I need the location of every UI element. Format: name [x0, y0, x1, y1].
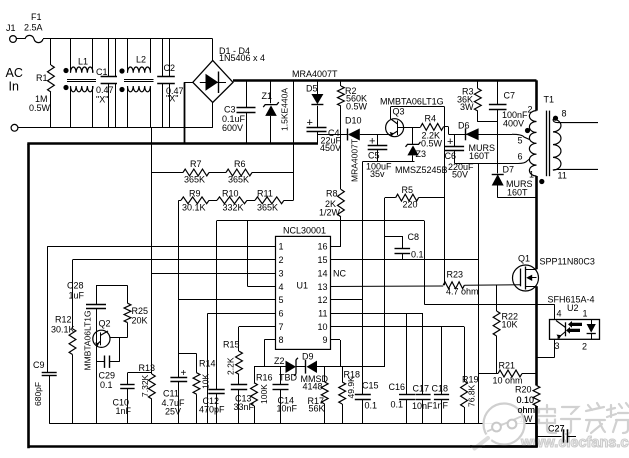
wire: ground rail top (thick): [27, 142, 318, 145]
svg-text:R12: R12: [55, 315, 72, 325]
transformer T1 primary winding: [525, 80, 554, 269]
resistor R5 220: [385, 185, 444, 210]
svg-text:D6: D6: [458, 121, 470, 131]
svg-text:76.8K: 76.8K: [467, 384, 477, 407]
resistor R4 2.2K 0.5W: [415, 114, 449, 149]
connector J1 bottom terminal: [11, 124, 18, 131]
svg-text:C17: C17: [413, 384, 430, 394]
svg-text:1N5406 x 4: 1N5406 x 4: [219, 53, 265, 63]
svg-text:4: 4: [279, 282, 284, 292]
svg-text:220: 220: [403, 200, 418, 210]
svg-text:+: +: [181, 368, 187, 379]
label AC In: [6, 66, 23, 94]
zener Z1 1.5KE440A: [262, 80, 290, 143]
capacitor C14 10nF: [273, 367, 298, 424]
capacitor C16 0.1: [389, 313, 416, 423]
resistor R1 1M 0.5W: [29, 39, 54, 128]
svg-text:NCL30001: NCL30001: [283, 226, 326, 236]
svg-text:R23: R23: [447, 270, 464, 280]
svg-text:NC: NC: [333, 269, 346, 279]
wire: pin 6 drop: [208, 313, 276, 423]
capacitor C9 680pF: [33, 360, 57, 424]
svg-text:+: +: [447, 136, 453, 148]
svg-text:470pF: 470pF: [199, 405, 225, 415]
resistor R16 100K: [251, 367, 273, 424]
svg-text:4: 4: [557, 309, 562, 319]
diode D6 MURS160T: [458, 121, 495, 161]
label MMBTA06LT1G (Q3): [380, 97, 444, 107]
wire: pin 8 drop: [264, 340, 275, 367]
resistor R14 10K: [179, 354, 216, 424]
transformer T1 core: [547, 111, 550, 177]
capacitor C10 1nF: [113, 373, 152, 424]
svg-text:In: In: [9, 80, 19, 94]
svg-text:1/2W: 1/2W: [319, 208, 341, 218]
resistor R23 4.7 ohm: [443, 270, 520, 297]
resistor R11 365K: [255, 189, 284, 213]
svg-text:R7: R7: [190, 159, 202, 169]
wire: R9 row: [179, 200, 294, 202]
svg-text:160T: 160T: [507, 187, 528, 197]
svg-text:D5: D5: [306, 84, 318, 94]
wire: drain-source line (thick): [535, 286, 538, 385]
svg-text:R15: R15: [223, 340, 240, 350]
svg-text:AC: AC: [6, 66, 23, 80]
svg-text:R10: R10: [222, 189, 239, 199]
wire: riser to opto collector rail: [424, 221, 426, 305]
svg-text:R8: R8: [326, 189, 338, 199]
svg-text:2: 2: [527, 105, 532, 115]
wire: top AC rail: [43, 38, 213, 40]
wire: neutral drop to ground rail: [184, 82, 186, 143]
svg-text:"X": "X": [96, 95, 108, 105]
svg-text:R20: R20: [515, 385, 532, 395]
wire: pin 3 to divider line: [152, 273, 275, 275]
svg-text:0.47: 0.47: [96, 85, 114, 95]
transformer T1 secondary winding: [553, 109, 598, 181]
wire: feedback divider line: [151, 128, 153, 374]
diode D7 MURS160T: [492, 165, 537, 198]
resistor R22 10K: [493, 285, 518, 374]
svg-text:1: 1: [529, 170, 534, 180]
label T1 pin 5: [517, 136, 522, 146]
wire: tap 6 to C6/gnd: [455, 159, 530, 164]
svg-text:2.5A: 2.5A: [24, 23, 43, 33]
svg-text:8: 8: [562, 109, 567, 119]
wire: C28/R25 top rail: [96, 285, 128, 287]
svg-text:35v: 35v: [370, 169, 385, 179]
wire: bridge top feed: [212, 39, 214, 60]
wire: pin 2 to R12: [73, 260, 276, 329]
capacitor C17 10nF: [412, 313, 433, 423]
svg-text:0.10: 0.10: [517, 395, 535, 405]
label T1 pin 6: [517, 151, 522, 161]
wire: pin 11 rail: [330, 313, 423, 315]
svg-text:365K: 365K: [228, 175, 249, 185]
resistor R15 2.2K: [223, 340, 242, 385]
resistor R9 30.1K: [181, 189, 209, 213]
svg-text:25V: 25V: [165, 407, 181, 417]
svg-text:C16: C16: [389, 382, 406, 392]
capacitor C13 33nF: [231, 385, 255, 424]
capacitor C4 22uF 450V: [307, 117, 342, 153]
svg-text:ohm: ohm: [518, 405, 536, 415]
svg-text:0.1: 0.1: [365, 401, 378, 411]
svg-text:15: 15: [317, 255, 327, 265]
watermark logo and text: [475, 403, 629, 451]
svg-text:20K: 20K: [132, 316, 148, 326]
svg-text:5: 5: [517, 136, 522, 146]
svg-text:R11: R11: [257, 189, 273, 199]
svg-text:3: 3: [555, 341, 560, 351]
svg-text:R5: R5: [402, 185, 414, 195]
diode D9 MMSD4148: [301, 352, 329, 392]
wire: opto collector rail: [424, 305, 554, 320]
op-amp U1 NCL30001 controller: [276, 226, 347, 350]
capacitor C29 0.1: [96, 338, 120, 391]
wire: pin 13 to R23: [330, 285, 443, 288]
svg-text:50V: 50V: [452, 170, 468, 180]
svg-text:L1: L1: [78, 57, 88, 67]
wire: Q2 emitter line: [96, 308, 98, 423]
svg-text:R1: R1: [36, 73, 48, 83]
svg-text:400V: 400V: [503, 119, 524, 129]
svg-text:L2: L2: [136, 55, 146, 65]
svg-text:Z1: Z1: [262, 91, 273, 101]
connector J1 (AC input top terminal): [6, 23, 16, 42]
label MMBTA06LT1G (Q2): [83, 310, 93, 370]
svg-text:1nF: 1nF: [433, 401, 449, 411]
svg-text:J1: J1: [6, 23, 16, 33]
svg-text:0.5W: 0.5W: [346, 102, 368, 112]
wire: C2 companion vertical: [169, 39, 171, 128]
svg-text:"X": "X": [166, 94, 178, 104]
svg-text:1nF: 1nF: [116, 406, 132, 416]
diode D10 MRA4007T: [345, 116, 391, 183]
wire: HV+ bus (thick): [233, 79, 537, 82]
svg-text:+: +: [307, 117, 313, 129]
svg-text:C11: C11: [163, 389, 179, 399]
svg-text:R19: R19: [462, 375, 479, 385]
wire: pin 10 rail: [330, 326, 464, 328]
svg-text:1: 1: [583, 309, 588, 319]
resistor R21 10 ohm: [479, 361, 537, 386]
svg-text:1uF: 1uF: [69, 291, 85, 301]
svg-text:C9: C9: [33, 360, 45, 370]
wire: bridge bottom to rail: [212, 102, 214, 127]
svg-text:14: 14: [317, 268, 327, 278]
svg-text:30.1K: 30.1K: [182, 203, 206, 213]
svg-text:100K: 100K: [259, 384, 269, 404]
label R20 values (over watermark): [517, 395, 536, 415]
svg-text:16: 16: [317, 242, 327, 252]
capacitor C27: [537, 424, 577, 443]
resistor R7 365K: [183, 159, 209, 185]
svg-text:C6: C6: [445, 151, 457, 161]
svg-text:0.1: 0.1: [391, 400, 404, 410]
wire: bridge left vertex to neutral drop: [184, 82, 193, 84]
svg-text:R9: R9: [189, 189, 201, 199]
svg-text:C28: C28: [67, 281, 84, 291]
transistor Q1 SPP11N80C3 (MOSFET): [513, 254, 595, 292]
capacitor C12 470pF: [199, 221, 225, 424]
capacitor C5 100uF 35v: [366, 135, 392, 180]
svg-text:2: 2: [279, 255, 284, 265]
svg-text:1: 1: [279, 242, 284, 252]
svg-text:12: 12: [317, 295, 327, 305]
svg-text:C29: C29: [99, 371, 116, 381]
wire: divider feed from bus: [293, 80, 295, 200]
svg-text:MMBTA06LT1G: MMBTA06LT1G: [83, 310, 93, 370]
wire: pin8 bias rail: [254, 366, 343, 368]
capacitor C28 1uF: [67, 281, 106, 309]
svg-text:MRA4007T: MRA4007T: [350, 139, 360, 182]
svg-text:D9: D9: [302, 352, 314, 362]
capacitor C7 100nF 400V: [489, 80, 528, 173]
wire: pin 12 to C15 line: [330, 299, 363, 301]
svg-text:4148: 4148: [303, 382, 323, 392]
wire: aux/VCC node (R4 to tap 5): [449, 134, 530, 139]
svg-text:2: 2: [582, 342, 587, 352]
wire: pin 7 to R15: [239, 327, 276, 352]
svg-text:10nF: 10nF: [277, 404, 298, 414]
bridge rectifier D1-D4: [193, 46, 265, 102]
svg-text:R16: R16: [256, 373, 273, 383]
svg-text:U2: U2: [567, 303, 579, 313]
wire: R7 row: [152, 172, 294, 174]
svg-text:C5: C5: [368, 151, 380, 161]
wire: pin 1 to C9 line: [47, 247, 275, 373]
svg-text:11: 11: [558, 171, 567, 181]
svg-text:0.1: 0.1: [411, 250, 424, 260]
inductor L1 (common-mode choke): [63, 39, 96, 128]
wire: pin 15 rail: [330, 259, 479, 261]
svg-text:R25: R25: [132, 306, 149, 316]
wire: ground frame left (thick): [27, 144, 30, 449]
svg-text:Q2: Q2: [99, 319, 111, 329]
resistor R2 560K 0.5W: [338, 80, 368, 134]
svg-text:C27: C27: [548, 424, 565, 434]
resistor R8 2K 1/2W: [319, 135, 344, 247]
svg-text:+: +: [369, 136, 375, 148]
fuse F1 2.5A: [17, 12, 44, 43]
svg-text:365K: 365K: [184, 175, 205, 185]
svg-text:3W: 3W: [460, 102, 474, 112]
svg-text:450V: 450V: [320, 143, 341, 153]
svg-text:D10: D10: [345, 116, 362, 126]
svg-text:0.5W: 0.5W: [29, 103, 51, 113]
svg-text:49.9K: 49.9K: [346, 376, 356, 399]
svg-text:11: 11: [318, 308, 327, 318]
wire: pin 9 to R5: [330, 198, 385, 367]
svg-text:2.2K: 2.2K: [226, 357, 236, 375]
svg-text:C3: C3: [224, 105, 236, 115]
resistor R18 49.9K: [339, 367, 360, 424]
svg-text:C7: C7: [504, 91, 516, 101]
svg-text:C8: C8: [408, 232, 420, 242]
svg-text:C1: C1: [96, 67, 108, 77]
svg-text:365K: 365K: [257, 203, 278, 213]
wire: sense/ground segment (over watermark): [470, 406, 538, 447]
transistor Q2: [93, 319, 128, 348]
svg-text:Z3: Z3: [416, 149, 427, 159]
wire: C1 companion vertical: [115, 39, 117, 128]
capacitor C8 0.1: [385, 232, 424, 260]
svg-text:332K: 332K: [223, 203, 244, 213]
svg-text:R21: R21: [499, 361, 516, 371]
svg-text:T1: T1: [544, 95, 555, 105]
svg-text:1.5KE440A: 1.5KE440A: [280, 88, 290, 131]
svg-text:56K: 56K: [309, 404, 325, 414]
resistor R12 30.1K: [51, 315, 76, 424]
resistor R20 0.10 ohm 1W: [515, 385, 540, 448]
capacitor C18 1nF: [432, 327, 450, 424]
svg-text:R4: R4: [425, 114, 437, 124]
svg-text:160T: 160T: [469, 151, 490, 161]
svg-text:D7: D7: [503, 165, 515, 175]
transistor Q3: [386, 107, 445, 137]
capacitor C27 (over watermark): [537, 424, 577, 443]
svg-text:MRA4007T: MRA4007T: [292, 69, 338, 79]
svg-text:7.32K: 7.32K: [140, 374, 150, 397]
inductor L2 (common-mode choke): [119, 39, 153, 128]
opto-coupler U2 SFH615A-4: [548, 295, 600, 352]
resistor R17 56K: [308, 367, 329, 424]
capacitor C1 0.47 X: [96, 39, 117, 128]
svg-text:MMBTA06LT1G: MMBTA06LT1G: [380, 97, 444, 107]
capacitor C11 4.7uF 25V: [162, 200, 188, 423]
svg-text:5: 5: [279, 295, 284, 305]
svg-text:MMSZ5245B: MMSZ5245B: [395, 165, 448, 175]
wire: pin 5 line: [179, 299, 275, 301]
capacitor C3 0.1uF 600V: [222, 80, 256, 143]
svg-text:R14: R14: [199, 359, 216, 369]
wire: D10 node: [317, 134, 348, 136]
resistor R13 7.32K: [139, 363, 156, 424]
resistor R3 36K 3W: [457, 80, 498, 122]
wire: bottom AC rail: [18, 127, 213, 129]
wire: ground frame bottom (thick): [29, 445, 538, 448]
svg-text:13: 13: [317, 282, 327, 292]
wire: pin 16 to R8: [330, 246, 341, 248]
zener Z2 TBD: [274, 356, 298, 383]
svg-text:F1: F1: [31, 12, 42, 22]
resistor R6 365K: [226, 159, 252, 185]
wire: C5/Z3 bottom rail: [363, 161, 415, 163]
resistor R10 332K: [217, 189, 247, 213]
svg-text:7: 7: [279, 322, 284, 332]
svg-text:TBD: TBD: [279, 373, 298, 383]
svg-text:C18: C18: [432, 384, 449, 394]
svg-text:10nF: 10nF: [412, 401, 433, 411]
svg-text:3: 3: [279, 268, 284, 278]
zener Z3 MMSZ5245B: [395, 127, 448, 175]
capacitor C15 0.1: [355, 161, 379, 423]
svg-text:600V: 600V: [222, 123, 243, 133]
svg-text:C15: C15: [362, 381, 379, 391]
capacitor C6 220uF 50V: [445, 134, 475, 179]
svg-text:0.1: 0.1: [100, 380, 113, 390]
svg-text:6: 6: [279, 308, 284, 318]
svg-text:U1: U1: [297, 281, 309, 291]
svg-text:Q1: Q1: [518, 254, 530, 264]
svg-text:8: 8: [279, 335, 284, 345]
wire: clamp ground drop: [478, 164, 480, 424]
svg-text:10K: 10K: [201, 374, 211, 389]
svg-text:R13: R13: [139, 363, 156, 373]
wire: pin 4 riser: [248, 221, 276, 287]
svg-text:0.5W: 0.5W: [421, 139, 443, 149]
svg-text:10K: 10K: [502, 320, 518, 330]
svg-text:30.1K: 30.1K: [51, 325, 75, 335]
label MRA4007T (D5): [292, 69, 338, 79]
svg-text:10: 10: [317, 322, 327, 332]
wire: compensation rail (C12 to U2 riser): [217, 220, 425, 222]
svg-text:6: 6: [517, 151, 522, 161]
resistor R25 20K: [124, 285, 148, 337]
capacitor C2 0.47 X: [157, 39, 183, 128]
svg-text:4.7 ohm: 4.7 ohm: [446, 287, 479, 297]
svg-text:SPP11N80C3: SPP11N80C3: [540, 257, 595, 267]
svg-text:R6: R6: [234, 159, 246, 169]
wire: component ground bus: [49, 423, 536, 425]
wire: opto emitter to source: [537, 339, 555, 357]
diode D5 MRA4007T: [306, 80, 323, 127]
svg-text:9: 9: [322, 335, 327, 345]
svg-text:Q3: Q3: [393, 107, 405, 117]
svg-text:Z2: Z2: [274, 356, 285, 366]
svg-text:680pF: 680pF: [33, 382, 43, 406]
resistor R19 76.8K: [461, 327, 479, 424]
wire: gate-drive vertical (Q3 collector to R23): [444, 107, 446, 286]
